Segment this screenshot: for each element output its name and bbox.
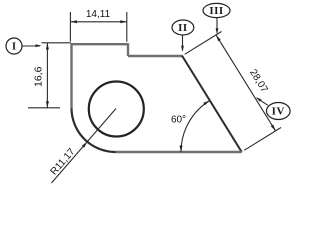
balloon II: [172, 20, 194, 35]
dim 28,07 upper extension line: [185, 32, 222, 55]
arrow balloon III: [216, 28, 219, 34]
arrow dim14 right: [120, 20, 127, 23]
radius R11,17 leader line: [52, 109, 117, 184]
dim 14,11 right extension line: [126, 12, 128, 42]
part slant edge: [182, 56, 242, 152]
balloon III leader: [216, 18, 218, 33]
part upper-right edge: [128, 55, 183, 57]
dim 16,6 bottom extension line: [28, 107, 60, 109]
dim 14,11 left extension line: [69, 12, 71, 42]
arrow radius R11,17: [82, 142, 87, 148]
dim 28,07 dimension line: [216, 35, 276, 131]
arrow angle60 bottom: [180, 146, 183, 153]
part top edge: [71, 43, 129, 45]
balloon IV: [267, 103, 291, 120]
dim 14,11 dimension line: [70, 21, 126, 23]
svg-text:16,6: 16,6: [32, 66, 44, 87]
svg-text:I: I: [12, 41, 16, 53]
balloon I: [6, 38, 22, 54]
part fillet arc R11,17: [72, 108, 116, 152]
arrow balloon II: [181, 46, 184, 52]
hole circle: [89, 82, 144, 137]
arrow balloon IV: [256, 97, 262, 102]
angle 60 arc: [181, 101, 210, 152]
dim 28,07 lower extension line: [244, 128, 281, 151]
arrow dim16 top: [46, 43, 49, 50]
svg-text:R11,17: R11,17: [49, 146, 78, 177]
balloon I leader: [22, 45, 40, 47]
arrow dim28 lower: [271, 125, 276, 131]
arrow dim28 upper: [216, 35, 221, 41]
part left edge: [70, 43, 72, 108]
dim 16,6 top extension line: [42, 42, 71, 44]
svg-text:II: II: [178, 22, 188, 34]
balloon III: [203, 3, 230, 17]
balloon IV leader: [257, 98, 268, 105]
part step edge: [127, 43, 129, 56]
svg-text:14,11: 14,11: [86, 9, 111, 20]
dim 16,6 dimension line: [46, 43, 48, 108]
arrow angle60 top: [203, 101, 209, 106]
balloon II leader: [182, 35, 184, 51]
wire: [71, 43, 242, 152]
arrow balloon I: [36, 44, 42, 47]
svg-text:IV: IV: [272, 106, 285, 118]
svg-text:60°: 60°: [171, 115, 186, 126]
part bottom edge: [116, 151, 242, 153]
arrow dim16 bottom: [46, 101, 49, 108]
svg-text:III: III: [209, 5, 223, 17]
arrow dim14 left: [70, 20, 77, 23]
